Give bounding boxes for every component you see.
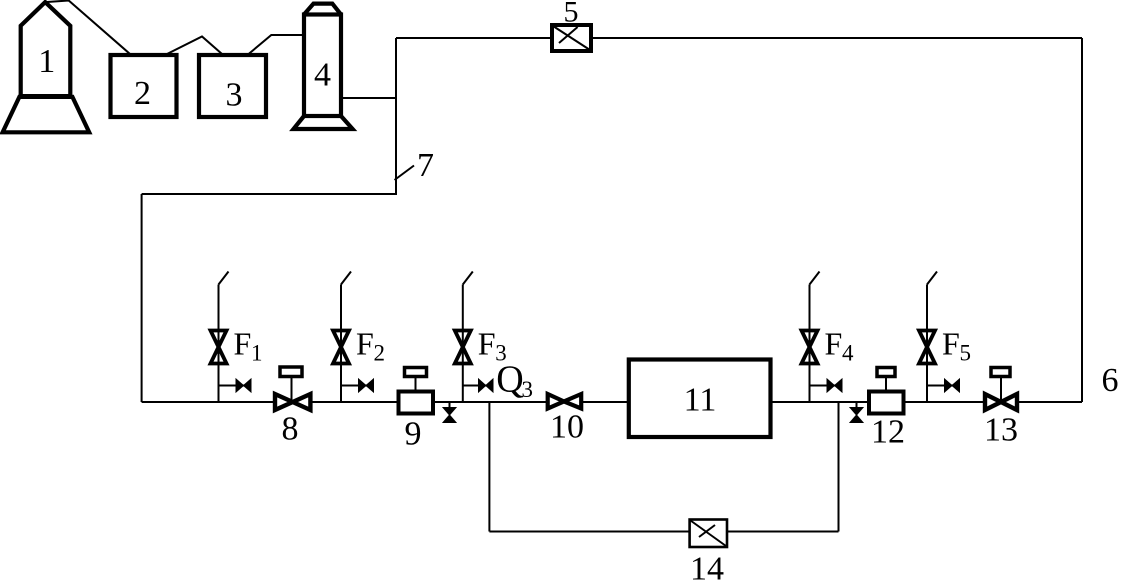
regulator 12 xyxy=(869,368,904,414)
label F3 xyxy=(478,326,507,366)
drain valve after 9 xyxy=(443,402,456,423)
column 4 skirt xyxy=(294,116,353,129)
svg-text:9: 9 xyxy=(405,416,422,453)
svg-text:5: 5 xyxy=(564,0,579,29)
reactor 11 xyxy=(629,360,771,438)
valve F5 xyxy=(919,331,935,364)
valve F3 xyxy=(455,331,471,364)
stub valve at F3 xyxy=(463,379,493,392)
wire top pipe xyxy=(396,37,1082,39)
box 2 xyxy=(111,55,177,117)
svg-text:3: 3 xyxy=(226,77,243,114)
branch F5 xyxy=(927,272,937,403)
wire right downcomer xyxy=(1081,38,1083,402)
wire main pipe xyxy=(142,401,1082,403)
svg-text:13: 13 xyxy=(984,412,1018,449)
svg-text:4: 4 xyxy=(314,57,331,94)
svg-text:F: F xyxy=(825,326,843,362)
stub valve at F5 xyxy=(927,379,960,392)
svg-text:11: 11 xyxy=(684,382,717,419)
svg-text:3: 3 xyxy=(522,377,534,402)
svg-text:2: 2 xyxy=(374,341,386,366)
column 4 body xyxy=(304,15,341,117)
branch F2 xyxy=(341,272,351,403)
svg-text:6: 6 xyxy=(1102,362,1119,399)
svg-text:F: F xyxy=(234,326,252,362)
svg-text:1: 1 xyxy=(38,43,55,80)
svg-text:2: 2 xyxy=(134,75,151,112)
label F4 xyxy=(825,326,855,366)
branch F1 xyxy=(219,272,229,403)
wire bypass right leg xyxy=(838,402,840,532)
wire bypass left leg xyxy=(488,402,490,532)
valve F1 xyxy=(211,331,227,364)
wire riser vertical xyxy=(395,38,397,195)
column 4 top cap xyxy=(304,4,341,15)
stub valve at F2 xyxy=(341,379,374,392)
svg-text:F: F xyxy=(942,326,960,362)
label F1 xyxy=(234,326,263,366)
flow element 5 xyxy=(552,25,591,51)
label Q3 xyxy=(496,359,533,403)
branch F3 xyxy=(463,272,473,403)
svg-text:5: 5 xyxy=(960,341,972,366)
svg-text:14: 14 xyxy=(690,551,724,580)
valve F4 xyxy=(802,331,818,364)
wire left downcomer xyxy=(141,194,143,402)
vessel 1 body xyxy=(21,2,71,96)
label F5 xyxy=(942,326,971,366)
label F2 xyxy=(356,326,385,366)
vessel 1 base xyxy=(3,97,90,132)
valve F2 xyxy=(333,331,349,364)
drain valve before 12 xyxy=(850,402,863,423)
wire box3 to column4 xyxy=(249,35,303,54)
wire box2 to box3 xyxy=(167,37,222,55)
leader line 7 xyxy=(395,166,415,181)
branch F4 xyxy=(810,272,820,403)
flow element 14 xyxy=(690,520,727,548)
box 3 xyxy=(199,55,266,117)
wire vessel1 to box2 xyxy=(45,1,130,55)
svg-text:12: 12 xyxy=(871,414,905,451)
svg-text:F: F xyxy=(478,326,496,362)
valve 8 xyxy=(275,367,310,410)
wire bypass bottom right xyxy=(727,531,839,533)
svg-text:7: 7 xyxy=(417,147,434,184)
valve 10 xyxy=(548,394,582,409)
svg-text:4: 4 xyxy=(842,341,854,366)
wire bypass bottom xyxy=(489,531,689,533)
wire return line horizontal xyxy=(142,193,396,195)
stub valve at F4 xyxy=(810,379,843,392)
svg-text:Q: Q xyxy=(496,359,523,401)
svg-text:10: 10 xyxy=(550,409,584,446)
svg-text:F: F xyxy=(356,326,374,362)
valve 13 xyxy=(985,368,1017,411)
regulator 9 xyxy=(399,368,434,414)
wire column4 to riser xyxy=(341,97,396,99)
svg-text:8: 8 xyxy=(282,411,299,448)
stub valve at F1 xyxy=(219,379,252,392)
svg-text:1: 1 xyxy=(251,341,263,366)
